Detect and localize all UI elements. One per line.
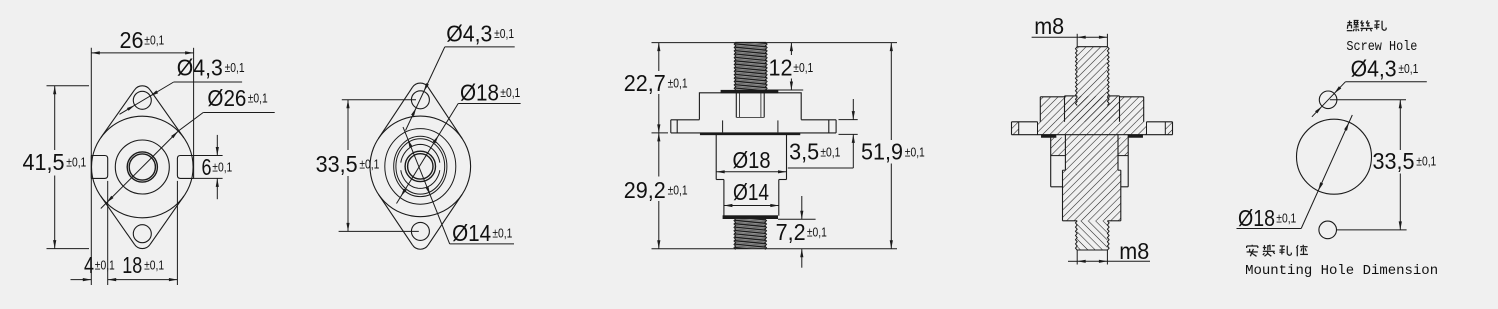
figure 2: step ring pair D14	[394, 136, 447, 196]
figure 3: upper cap body	[699, 93, 801, 120]
figure 3: extension line flange bottom	[652, 132, 669, 134]
figure 4: central core (hatched)	[1065, 135, 1118, 171]
figure 2: middle ring (top and bottom arcs)	[401, 144, 440, 162]
figure 3: top threaded stud M8	[735, 40, 766, 96]
figure 3: flange plate bottom edge	[671, 132, 836, 134]
figure 1: bottom mounting ear (rounded tip)	[101, 196, 135, 245]
svg-text:Ø4,3: Ø4,3	[177, 54, 223, 80]
figure 1: inner hole double circle	[127, 152, 157, 182]
figure 5: Chinese text mounting hole position (an zhuang kong wei)	[1247, 245, 1258, 257]
figure 5: label underline D18	[1237, 228, 1302, 230]
figure 2: label leader D14 (diameter line)	[403, 127, 450, 244]
figure 3: extension line 7,2	[778, 218, 816, 220]
figure 2: bottom ear (rounded tip)	[379, 194, 413, 245]
figure 3: body D14 section	[723, 180, 725, 216]
svg-text:±0,1: ±0,1	[144, 259, 164, 273]
svg-text:±0,1: ±0,1	[500, 86, 520, 100]
figure 3: extension lines 3,5	[839, 119, 858, 121]
figure 3: extension line top	[652, 42, 736, 44]
figure 2: label underline D14	[450, 243, 514, 245]
figure 1: label underline D4,3	[174, 81, 242, 83]
figure 4: bottom stud serrated edges	[1076, 221, 1078, 250]
figure 4: bottom threaded stud M8 (hatched)	[1077, 221, 1107, 250]
figure 1: right side notch	[177, 156, 193, 179]
figure 3: baseline	[652, 248, 898, 250]
svg-text:33,5: 33,5	[316, 151, 358, 177]
figure 5: label underline D4,3	[1345, 81, 1426, 83]
svg-text:±0,1: ±0,1	[66, 155, 86, 169]
svg-text:51,9: 51,9	[861, 139, 903, 165]
figure 5: dimension line 33,5	[1399, 100, 1401, 150]
svg-text:22,7: 22,7	[624, 70, 666, 96]
figure 5: label leader D4,3	[1312, 82, 1346, 117]
figure 1: dimension line 41,5	[54, 86, 56, 150]
svg-text:m8: m8	[1119, 238, 1149, 264]
svg-text:±0,1: ±0,1	[793, 61, 813, 75]
figure 2: flange outer circle	[370, 116, 471, 217]
figure 3: bushing lines below stud	[735, 93, 737, 118]
svg-text:±0,1: ±0,1	[492, 226, 512, 240]
svg-text:±0,1: ±0,1	[1276, 211, 1296, 225]
svg-text:33,5: 33,5	[1373, 148, 1415, 174]
svg-text:Ø4,3: Ø4,3	[446, 20, 492, 46]
svg-text:41,5: 41,5	[23, 149, 65, 175]
figure 1: dimension line 6	[216, 135, 218, 156]
figure 4: nut boss	[1065, 96, 1120, 122]
figure 3: flange wing inner steps	[722, 120, 724, 132]
svg-text:±0,1: ±0,1	[1398, 62, 1418, 76]
figure 3: dimension line 29,2	[658, 133, 660, 177]
figure 3: dimension line D18	[716, 171, 786, 173]
svg-text:Screw Hole: Screw Hole	[1346, 40, 1417, 55]
figure 3: extension line stud bottom	[766, 89, 803, 91]
figure 4: cap bottom lips	[1041, 135, 1056, 138]
svg-text:Ø18: Ø18	[1238, 205, 1275, 231]
figure 5: top screw hole circle	[1319, 91, 1337, 109]
figure 1: bottom ear screw hole	[133, 225, 151, 243]
figure 1: dimension 41,5 extension lines	[47, 85, 90, 87]
svg-text:18: 18	[122, 252, 142, 278]
svg-text:±0,1: ±0,1	[668, 184, 688, 198]
figure 3: dimension line 12	[790, 43, 792, 55]
svg-text:Ø18: Ø18	[460, 80, 499, 106]
svg-text:±0,1: ±0,1	[1416, 155, 1436, 169]
svg-text:Ø26: Ø26	[207, 85, 246, 111]
figure 1: dimension line 26	[91, 52, 193, 54]
figure 2: body ring D18	[385, 129, 456, 205]
figure 2: top ear (rounded tip)	[378, 87, 412, 138]
figure 3: dimension line 51,9	[890, 43, 892, 140]
figure 1: dimension 6 extension lines	[194, 155, 223, 157]
figure 3: plate shoulder bar	[700, 133, 800, 135]
figure 5: Chinese text screw hole (luo si kong)	[1347, 20, 1359, 31]
figure 3: flange right end	[835, 120, 837, 133]
figure 1: dimension line 18	[108, 279, 178, 281]
svg-text:±0,1: ±0,1	[494, 27, 514, 41]
figure 5: big mounting hole circle D18	[1297, 119, 1372, 194]
svg-text:±0,1: ±0,1	[248, 91, 268, 105]
figure 3: body D18 section	[715, 135, 717, 180]
figure 4: right flange tab	[1147, 121, 1173, 123]
figure 2: inner double circle	[405, 151, 435, 181]
svg-text:Ø14: Ø14	[733, 179, 769, 205]
figure 1: dimension 26 extension lines	[90, 48, 92, 285]
figure 2: top ear screw hole	[411, 91, 429, 109]
figure 3: dimension line 22,7	[658, 43, 660, 71]
figure 1: label underline D26	[203, 112, 275, 114]
figure 4: left flange tab	[1012, 121, 1038, 123]
figure 4: cap body upper (hatched)	[1040, 97, 1143, 122]
figure 5: label leader D18 (diameter line)	[1301, 115, 1352, 229]
figure 1: left side notch	[91, 156, 107, 179]
figure 3: washer bar under stud	[721, 90, 778, 93]
figure 3: bottom plate bar	[723, 216, 778, 219]
figure 1: bottom extension lines	[107, 181, 109, 285]
figure 2: dimension line 33,5	[347, 100, 349, 150]
svg-text:±0,1: ±0,1	[807, 226, 827, 240]
figure 4: top stud serrated edges	[1076, 47, 1078, 106]
svg-text:m8: m8	[1034, 13, 1064, 39]
svg-text:±0,1: ±0,1	[212, 161, 232, 175]
figure 4: m8 top ticks	[1076, 34, 1078, 47]
figure 3: flange plate top edge	[671, 119, 700, 121]
figure 3: bottom threaded stud M8	[735, 217, 766, 256]
figure 4: top threaded stud M8 (hatched)	[1077, 47, 1107, 107]
figure 5: dimension 33,5 extension lines	[1330, 99, 1406, 101]
figure 2: label underline D4,3	[445, 46, 515, 48]
svg-text:Ø4,3: Ø4,3	[1351, 56, 1397, 82]
svg-text:12: 12	[769, 55, 793, 81]
figure 1: label leader D26 (diameter line)	[178, 113, 203, 132]
figure 3: top stud outline	[735, 41, 766, 43]
figure 4: skirt outer walls (hatched tops)	[1051, 137, 1066, 155]
figure 1: flange outer circle (diameter 26)	[92, 116, 194, 218]
figure 1: top mounting ear (rounded tip)	[101, 90, 135, 138]
figure 3: dimension line 3,5	[852, 99, 854, 120]
figure 3: label underline 3,5	[788, 167, 854, 169]
figure 3: dimension line D14	[724, 205, 779, 207]
figure 2: label leader D18 (diameter line)	[397, 104, 459, 204]
svg-text:Ø14: Ø14	[452, 220, 491, 246]
svg-text:4: 4	[84, 252, 94, 278]
figure 4: m8 bottom ticks	[1076, 250, 1078, 265]
svg-text:26: 26	[120, 27, 144, 53]
svg-text:Ø18: Ø18	[733, 147, 771, 173]
svg-text:±0,1: ±0,1	[359, 158, 379, 172]
svg-text:±0,1: ±0,1	[95, 259, 115, 273]
svg-text:±0,1: ±0,1	[144, 34, 164, 48]
figure 3: dimension line 7,2	[801, 196, 803, 219]
figure 1: central boss circle	[115, 140, 169, 194]
figure 2: label leader D4,3	[406, 47, 445, 131]
figure 5: bottom screw hole circle	[1319, 221, 1337, 239]
svg-text:±0,1: ±0,1	[225, 61, 245, 75]
svg-text:±0,1: ±0,1	[820, 145, 840, 159]
svg-text:±0,1: ±0,1	[668, 77, 688, 91]
figure 4: cap body lower (hatched)	[1038, 122, 1147, 135]
figure 1: top ear screw hole (diameter 4.3)	[133, 91, 151, 109]
svg-text:3,5: 3,5	[789, 139, 819, 165]
svg-text:7,2: 7,2	[776, 219, 806, 245]
figure 4: m8 bottom dimension line	[1068, 260, 1077, 262]
figure 1: label leader D4,3	[120, 82, 174, 114]
figure 1: dimension line 4 (with outside arrow)	[71, 279, 92, 281]
svg-text:6: 6	[202, 154, 212, 180]
figure 4: m8 top dimension line	[1032, 36, 1077, 38]
figure 2: bottom ear screw hole	[411, 222, 429, 240]
figure 2: dimension 33,5 extension lines	[342, 99, 416, 101]
svg-text:Mounting Hole Dimension: Mounting Hole Dimension	[1245, 263, 1438, 279]
svg-text:29,2: 29,2	[624, 177, 666, 203]
figure 3: flange left end	[670, 120, 672, 133]
svg-text:±0,1: ±0,1	[905, 145, 925, 159]
figure 2: label underline D18	[458, 103, 520, 105]
